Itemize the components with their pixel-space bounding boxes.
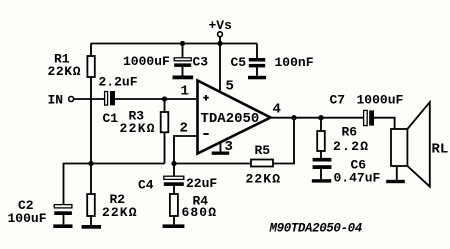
wire VB down to C2 (63, 163, 65, 205)
svg-text:C7: C7 (330, 93, 346, 108)
wire R5 right to output node (273, 118, 294, 164)
resistor R1 (48, 44, 95, 80)
resistor R3 (120, 99, 169, 164)
wire C7 to speaker (374, 118, 395, 129)
wire +Vs stub down to rail (219, 37, 221, 44)
svg-text:5: 5 (226, 79, 234, 95)
pin 5 stub from rail (219, 44, 221, 93)
capacitor C2 (8, 198, 72, 226)
resistor R6 (317, 118, 369, 158)
capacitor C4 (138, 164, 217, 195)
ground under C6 (312, 179, 331, 182)
svg-text:22KΩ: 22KΩ (102, 205, 138, 220)
pin 3 stub (220, 142, 222, 152)
wire R1 bottom lead down to bias node (crosses IN wire) (90, 77, 92, 164)
svg-text:1: 1 (181, 84, 189, 100)
svg-text:R5: R5 (255, 143, 271, 158)
op-amp - input mark (203, 133, 208, 135)
svg-text:100nF: 100nF (275, 55, 314, 70)
svg-text:+Vs: +Vs (209, 18, 233, 33)
svg-text:2.2uF: 2.2uF (99, 75, 138, 90)
node junction dot C3/rail (180, 41, 185, 46)
svg-text:1000uF: 1000uF (123, 54, 170, 69)
svg-text:22KΩ: 22KΩ (48, 64, 82, 79)
svg-text:680Ω: 680Ω (182, 205, 218, 220)
node junction dot +Vs/rail (217, 41, 222, 46)
wire output from apex to C7 (271, 117, 364, 119)
svg-text:RL: RL (432, 142, 449, 158)
ground under speaker (386, 180, 405, 183)
svg-text:C3: C3 (193, 55, 209, 70)
svg-text:TDA2050: TDA2050 (201, 111, 260, 127)
wire feedback node to R5 (174, 163, 251, 165)
ground under pin 3 (212, 152, 230, 155)
capacitor C1 (99, 75, 138, 127)
svg-text:2: 2 (180, 121, 188, 137)
capacitor C6 (313, 158, 381, 186)
resistor R4 (170, 194, 217, 225)
wire top supply rail (91, 43, 257, 45)
wire speaker to ground (396, 166, 398, 180)
svg-text:IN: IN (48, 93, 64, 108)
svg-text:1000uF: 1000uF (357, 93, 404, 108)
op-amp + input mark (203, 95, 208, 100)
speaker RL (391, 102, 448, 186)
ground under C5 (248, 76, 266, 80)
svg-text:C4: C4 (138, 178, 154, 193)
svg-text:100uF: 100uF (8, 211, 47, 226)
svg-text:22KΩ: 22KΩ (246, 172, 282, 187)
ground under C2 (53, 224, 72, 228)
resistor R5 (246, 143, 282, 187)
resistor R2 (87, 164, 137, 226)
node junction dot R2/VB (88, 161, 93, 166)
svg-text:22uF: 22uF (186, 176, 217, 191)
capacitor C7 (330, 93, 404, 126)
wire C1 to pin1 (115, 98, 196, 100)
op-amp U1 TDA2050 triangle (198, 81, 271, 154)
svg-text:M90TDA2050-04: M90TDA2050-04 (269, 222, 363, 236)
pin 2 wire (174, 136, 196, 164)
capacitor C5 (231, 44, 314, 76)
node +Vs terminal circle (218, 32, 223, 37)
svg-text:C1: C1 (103, 111, 119, 126)
node junction dot pin1/R3 (162, 96, 167, 101)
node IN terminal circle (69, 97, 74, 102)
node junction dot pin2 node (171, 161, 176, 166)
node junction dot feedback/output (291, 115, 296, 120)
svg-text:R6: R6 (342, 125, 358, 140)
svg-text:2.2Ω: 2.2Ω (333, 139, 369, 154)
node junction dot zobel/output (318, 115, 323, 120)
ground under R2 (82, 225, 101, 229)
capacitor C3 (123, 44, 208, 76)
svg-text:4: 4 (273, 102, 281, 118)
wire bias node VB horizontal (64, 163, 165, 165)
svg-text:C5: C5 (231, 55, 247, 70)
wire IN to C1 (74, 98, 105, 100)
ground under R4 (163, 224, 185, 228)
svg-text:22KΩ: 22KΩ (120, 121, 156, 136)
svg-text:0.47uF: 0.47uF (334, 171, 381, 186)
ground under C3 (173, 76, 194, 80)
